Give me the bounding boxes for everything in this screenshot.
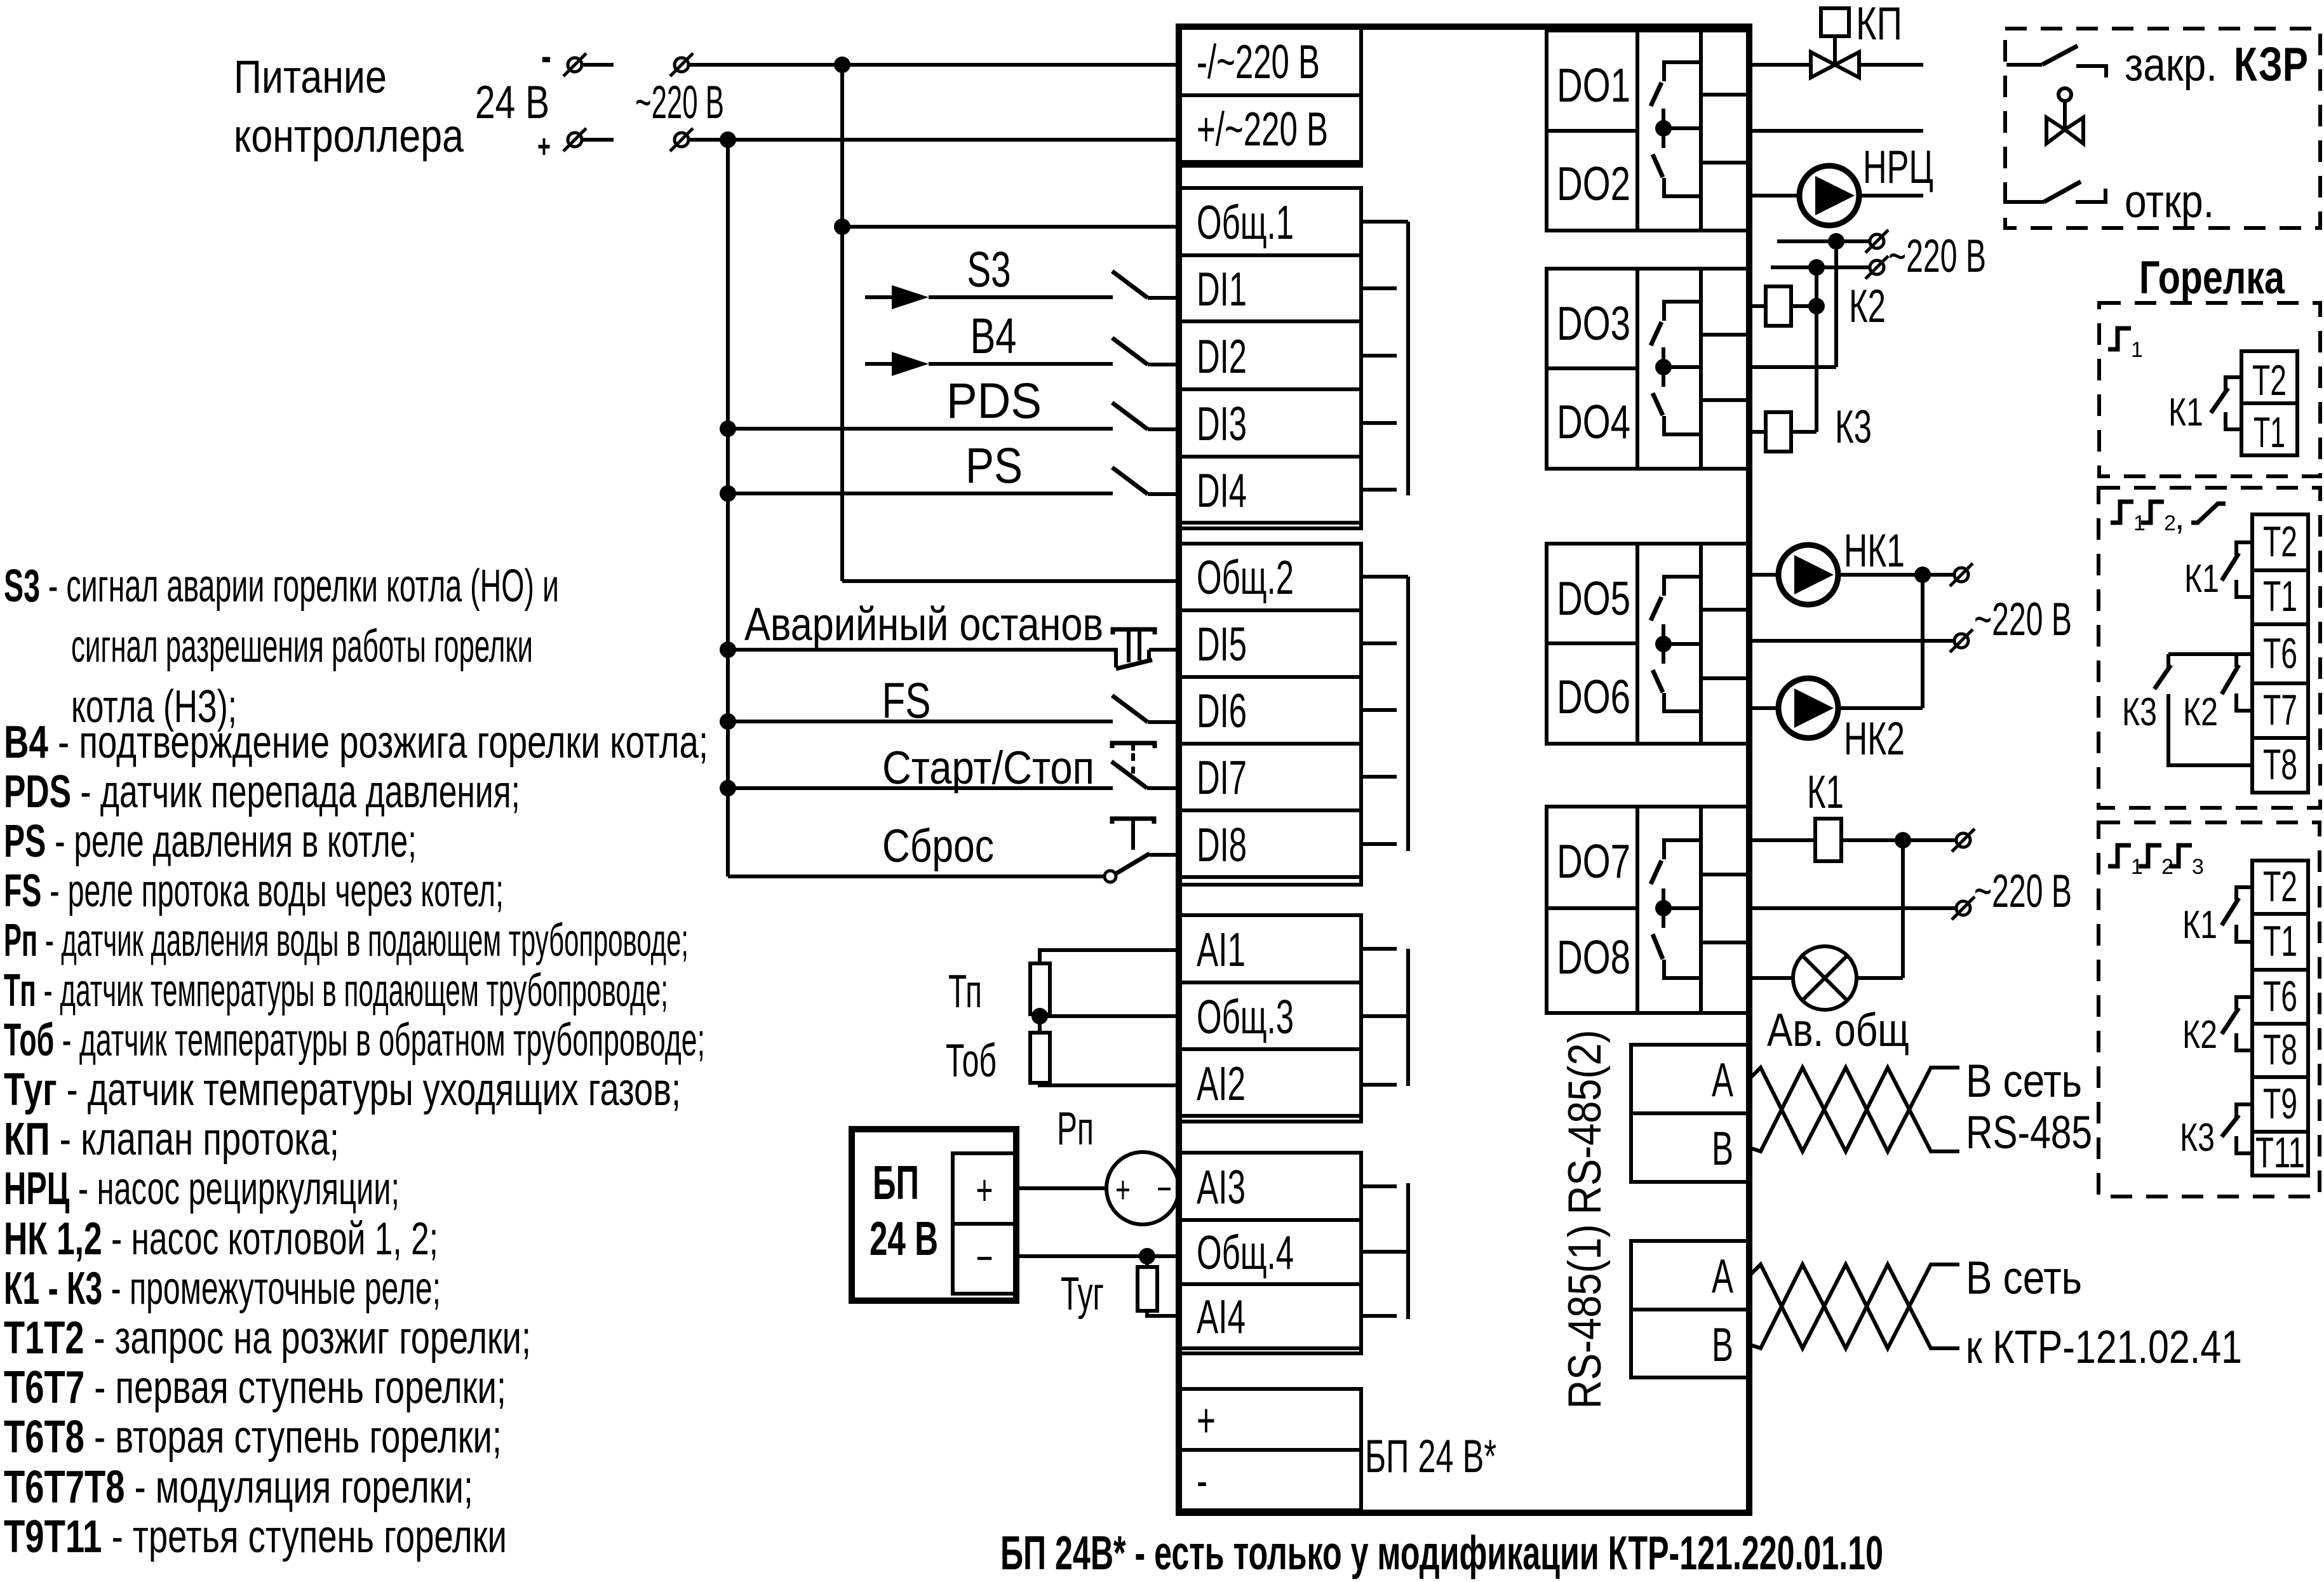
svg-text:Общ.2: Общ.2 xyxy=(1197,551,1294,604)
svg-text:Общ.4: Общ.4 xyxy=(1197,1226,1294,1279)
svg-text:DO1: DO1 xyxy=(1557,58,1630,112)
svg-text:~220 В: ~220 В xyxy=(1974,594,2072,645)
wire lamp to vertical xyxy=(1857,976,1903,980)
wire КП onward xyxy=(1859,63,1923,67)
wire DO1 to КП xyxy=(1749,63,1811,67)
Горелка box 1 (dashed) xyxy=(2099,303,2320,476)
svg-text:S3: S3 xyxy=(967,241,1011,297)
svg-text:AI3: AI3 xyxy=(1197,1160,1246,1214)
svg-text:T11: T11 xyxy=(2255,1129,2305,1177)
svg-text:+: + xyxy=(537,128,551,165)
terminal 24V plus xyxy=(563,128,586,151)
terminal group di1 xyxy=(1180,188,1361,528)
bracket bus group AI3/AI4 (Общ.4 common) xyxy=(1361,1250,1408,1254)
junction 220V-a / vertical xyxy=(1828,233,1844,250)
junction Туг top xyxy=(1139,1248,1155,1264)
wire DO4 common to vertical xyxy=(1749,365,1836,369)
svg-text:DO3: DO3 xyxy=(1557,297,1630,350)
wire DO1/DO2 common onward xyxy=(1749,129,1923,133)
step symbol Г1 xyxy=(2108,328,2131,349)
limit switch откр. xyxy=(2006,200,2044,204)
wire stub plus xyxy=(582,138,614,142)
svg-text:PDS - датчик перепада давлени: PDS - датчик перепада давления; xyxy=(4,767,520,817)
svg-text:AI2: AI2 xyxy=(1197,1057,1246,1110)
КЗР dashed box xyxy=(2005,29,2320,228)
junction 220V-b / vertical xyxy=(1808,259,1825,276)
svg-text:T9: T9 xyxy=(2263,1080,2297,1128)
svg-text:DI2: DI2 xyxy=(1197,330,1247,383)
contact К1 xyxy=(2226,377,2241,390)
svg-text:Т6Т7Т8 - модуляция горелки;: Т6Т7Т8 - модуляция горелки; xyxy=(4,1462,473,1513)
svg-text:DO4: DO4 xyxy=(1557,395,1630,448)
svg-text:В сеть: В сеть xyxy=(1966,1056,2082,1107)
svg-text:Туг - датчик температуры уходя: Туг - датчик температуры уходящих газов; xyxy=(4,1064,681,1115)
svg-text:~220 В: ~220 В xyxy=(635,77,724,128)
terminal 220V line1 xyxy=(670,53,693,76)
svg-text:Рп: Рп xyxy=(1057,1103,1094,1155)
svg-text:-: - xyxy=(541,31,551,81)
svg-text:RS-485: RS-485 xyxy=(1966,1107,2092,1158)
wire to Общ.1 xyxy=(842,225,1180,229)
wire DO8 to lamp xyxy=(1749,976,1793,980)
relay output block DO1/DO2 xyxy=(1547,30,1749,231)
svg-text:К1: К1 xyxy=(1807,767,1844,818)
wire stub minus xyxy=(582,63,614,67)
wire DO2 to НРЦ xyxy=(1749,194,1799,198)
switch S3 (DI1) xyxy=(929,295,1113,299)
valve symbol in КЗР xyxy=(2059,88,2071,101)
svg-text:К3: К3 xyxy=(1835,401,1872,453)
wire DO3 to К2 xyxy=(1749,304,1766,308)
terminal box T2/T1 (burner 1) xyxy=(2241,351,2297,455)
svg-text:КЗР: КЗР xyxy=(2234,37,2308,91)
svg-text:DO7: DO7 xyxy=(1557,835,1630,888)
wire between Тп and Тоб xyxy=(1038,1014,1042,1033)
contact К2 xyxy=(2236,654,2252,667)
step symbols Г1 Г2 Г3 xyxy=(2108,845,2131,866)
svg-text:К1: К1 xyxy=(2168,391,2203,434)
bracket bus group DI1-4 (Общ.1 common) xyxy=(1361,220,1408,224)
bracket bus group AI1/AI2 (Общ.3 common) xyxy=(1361,1014,1408,1018)
wire К1 to junction xyxy=(1841,838,1903,842)
svg-text:КП: КП xyxy=(1856,0,1902,50)
svg-text:−: − xyxy=(1157,1167,1172,1210)
svg-text:+: + xyxy=(1197,1393,1216,1447)
wire К3 to vertical xyxy=(1791,430,1817,434)
Горелка box 3 (dashed) xyxy=(2099,822,2320,1197)
svg-text:К1: К1 xyxy=(2182,903,2217,947)
svg-text:Т6Т7 - первая ступень горелки;: Т6Т7 - первая ступень горелки; xyxy=(4,1362,506,1413)
svg-text:,: , xyxy=(2175,497,2185,537)
resistor Тп xyxy=(1030,963,1050,1014)
svg-text:Горелка: Горелка xyxy=(2139,252,2285,304)
svg-text:DI8: DI8 xyxy=(1197,818,1247,871)
vertical bus A (Общ.1, Общ.2) xyxy=(840,65,844,581)
svg-text:сигнал разрешения работы горел: сигнал разрешения работы горелки xyxy=(71,621,533,672)
svg-text:КП - клапан протока;: КП - клапан протока; xyxy=(4,1114,339,1165)
svg-text:B4: B4 xyxy=(971,307,1017,364)
svg-text:+/~220 В: +/~220 В xyxy=(1197,102,1328,156)
switch PDS (DI3) xyxy=(728,427,1113,431)
svg-text:T7: T7 xyxy=(2263,686,2297,734)
RS-485(1) port box A/B xyxy=(1631,1241,1748,1378)
wire Тоб to AI2 xyxy=(1040,1083,1180,1085)
changeover contact of DO3/DO4 xyxy=(1664,302,1701,321)
svg-text:DO8: DO8 xyxy=(1557,930,1630,984)
wire 220V-b xyxy=(1771,265,1870,269)
svg-text:БП: БП xyxy=(873,1156,919,1209)
wire DO7/8 common to 220V terminal b xyxy=(1749,906,1956,910)
svg-text:Туг: Туг xyxy=(1061,1268,1104,1320)
wire НК2 to vertical xyxy=(1838,706,1923,710)
svg-text:FS - реле протока воды через к: FS - реле протока воды через котел; xyxy=(4,866,504,916)
switch PS (DI4) xyxy=(728,492,1113,495)
svg-text:T8: T8 xyxy=(2263,1026,2297,1074)
svg-text:Общ.3: Общ.3 xyxy=(1197,990,1294,1043)
twisted pair RS-485(2) xyxy=(1749,1068,1959,1151)
wire Тп to AI1 xyxy=(1040,950,1180,963)
controller main block outline xyxy=(1179,27,1749,1513)
svg-text:RS-485(1): RS-485(1) xyxy=(1559,1224,1611,1409)
wire to 220V terminal a xyxy=(1923,573,1954,577)
wire БП- to Общ.4 xyxy=(1016,1254,1180,1258)
svg-text:НК2: НК2 xyxy=(1844,713,1905,765)
switch B4 (DI2) xyxy=(929,362,1113,366)
svg-text:-/~220 В: -/~220 В xyxy=(1197,35,1320,88)
svg-text:Ав. общ: Ав. общ xyxy=(1767,1005,1909,1056)
changeover contact of DO5/DO6 xyxy=(1664,577,1701,596)
contact К3 (burner 2) xyxy=(2168,652,2236,656)
svg-text:БП 24 В*: БП 24 В* xyxy=(1365,1431,1496,1482)
svg-text:НРЦ: НРЦ xyxy=(1863,142,1933,193)
contact К1 xyxy=(2236,542,2252,555)
RS-485(2) port box A/B xyxy=(1631,1045,1748,1182)
svg-text:B: B xyxy=(1712,1318,1733,1371)
svg-text:RS-485(2): RS-485(2) xyxy=(1559,1030,1611,1215)
svg-text:В сеть: В сеть xyxy=(1966,1252,2082,1304)
svg-text:24 В: 24 В xyxy=(475,77,549,128)
resistor Туг xyxy=(1145,1256,1149,1267)
contact К1 xyxy=(2236,887,2252,900)
svg-text:К2: К2 xyxy=(2182,1013,2217,1057)
svg-text:К2: К2 xyxy=(2183,690,2218,734)
contact К2 xyxy=(2236,997,2252,1010)
svg-text:Т1Т2 - запрос на розжиг горелк: Т1Т2 - запрос на розжиг горелки; xyxy=(4,1313,531,1364)
svg-text:FS: FS xyxy=(882,672,931,728)
svg-text:A: A xyxy=(1712,1053,1733,1106)
svg-text:T2: T2 xyxy=(2252,356,2287,405)
svg-text:T1: T1 xyxy=(2263,917,2297,965)
svg-text:T2: T2 xyxy=(2263,518,2297,566)
limit switch закр. xyxy=(2006,63,2042,67)
wire DO7 to К1 xyxy=(1749,838,1815,842)
svg-text:T8: T8 xyxy=(2263,741,2297,789)
svg-text:Тоб - датчик температуры в обр: Тоб - датчик температуры в обратном труб… xyxy=(4,1015,705,1066)
svg-text:+: + xyxy=(1115,1169,1131,1211)
wire DO4 to К3 xyxy=(1749,430,1766,434)
wire 220V line1 to -/~220В box xyxy=(689,63,1180,67)
svg-text:DI3: DI3 xyxy=(1197,397,1247,450)
svg-text:PDS: PDS xyxy=(946,372,1042,429)
svg-text:1: 1 xyxy=(2131,338,2143,362)
vertical НК1/НК2 join xyxy=(1921,575,1924,708)
wire to 220V terminal a xyxy=(1903,838,1956,842)
vertical К1 to lamp xyxy=(1901,840,1905,978)
svg-text:DO6: DO6 xyxy=(1557,670,1630,723)
svg-text:К1: К1 xyxy=(2184,557,2219,601)
switch Аварийный останов (DI5, NC mushroom button) xyxy=(728,648,1116,652)
terminal 220V line2 xyxy=(670,128,693,151)
svg-text:закр.: закр. xyxy=(2125,39,2217,91)
relay output block DO5/DO6 xyxy=(1547,544,1749,744)
twisted pair RS-485(1) xyxy=(1749,1264,1959,1348)
terminal group ai1 xyxy=(1180,915,1361,1122)
wire Туг to AI4 xyxy=(1147,1311,1180,1316)
bracket bus group DI5-8 (Общ.2 common) xyxy=(1361,575,1408,579)
svg-text:DI5: DI5 xyxy=(1197,617,1247,671)
wire 220V-a xyxy=(1777,239,1870,243)
svg-text:B4 - подтверждение розжига гор: B4 - подтверждение розжига горелки котла… xyxy=(4,717,708,768)
svg-text:DI4: DI4 xyxy=(1197,464,1247,517)
svg-text:T2: T2 xyxy=(2263,862,2297,911)
switch Сброс (DI8, pushbutton NO) xyxy=(728,875,1104,878)
svg-text:24 В: 24 В xyxy=(870,1212,938,1265)
changeover contact of DO7/DO8 xyxy=(1664,840,1701,859)
terminal group power xyxy=(1180,27,1361,166)
svg-text:Т6Т8 - вторая ступень горелки;: Т6Т8 - вторая ступень горелки; xyxy=(4,1412,502,1463)
terminal group di2 xyxy=(1180,544,1361,885)
resistor Тоб xyxy=(1030,1033,1050,1083)
svg-text:PS: PS xyxy=(965,437,1023,493)
wire БП+ to Рп xyxy=(1016,1186,1106,1190)
svg-text:откр.: откр. xyxy=(2125,176,2214,227)
svg-text:T6: T6 xyxy=(2263,629,2297,678)
terminal group ai2 xyxy=(1180,1153,1361,1353)
junction bus A / Общ.1 wire xyxy=(834,218,850,235)
sensor Рп (pressure transmitter) xyxy=(1106,1152,1179,1224)
svg-text:Т9Т11 - третья ступень горелки: Т9Т11 - третья ступень горелки xyxy=(4,1512,507,1562)
svg-text:К3: К3 xyxy=(2122,690,2157,734)
svg-text:Старт/Стоп: Старт/Стоп xyxy=(882,742,1094,794)
svg-text:Аварийный останов: Аварийный останов xyxy=(744,599,1103,650)
terminal group pm xyxy=(1180,1389,1361,1510)
svg-text:К3: К3 xyxy=(2180,1116,2215,1160)
wire DO5/6 common to 220V terminal b xyxy=(1749,639,1954,643)
svg-text:T1: T1 xyxy=(2263,572,2297,620)
wire К2 to vertical xyxy=(1791,304,1817,308)
wire НК1 to junction xyxy=(1838,573,1923,577)
Горелка box 2 (dashed) xyxy=(2099,488,2320,808)
svg-text:Общ.1: Общ.1 xyxy=(1197,196,1294,249)
relay output block DO3/DO4 xyxy=(1547,269,1749,469)
vertical 220V-a to DO4 common xyxy=(1834,241,1838,367)
svg-text:Рп - датчик давления воды в по: Рп - датчик давления воды в подающем тру… xyxy=(4,915,688,966)
svg-text:Тоб: Тоб xyxy=(946,1035,997,1087)
wire to Общ.2 xyxy=(842,579,1180,583)
svg-text:Питание: Питание xyxy=(234,51,387,103)
svg-text:К1 - К3 - промежуточные реле;: К1 - К3 - промежуточные реле; xyxy=(4,1263,441,1314)
wire to Общ.3 xyxy=(1040,1014,1180,1018)
svg-text:к КТР-121.02.41: к КТР-121.02.41 xyxy=(1966,1322,2242,1373)
svg-text:PS - реле давления в котле;: PS - реле давления в котле; xyxy=(4,816,417,867)
svg-text:T6: T6 xyxy=(2263,972,2297,1021)
svg-text:DO5: DO5 xyxy=(1557,572,1630,625)
svg-text:Тп - датчик температуры в пода: Тп - датчик температуры в подающем трубо… xyxy=(4,965,668,1016)
svg-text:DO2: DO2 xyxy=(1557,157,1630,210)
svg-text:AI4: AI4 xyxy=(1197,1290,1246,1343)
svg-text:3: 3 xyxy=(2192,855,2204,879)
svg-text:-: - xyxy=(1197,1454,1207,1507)
junction line2 / bus B xyxy=(720,131,736,148)
wire DO6 to НК2 xyxy=(1749,706,1778,710)
wire НРЦ onward xyxy=(1859,194,1923,198)
relay output block DO7/DO8 xyxy=(1547,807,1749,1013)
contact К3 xyxy=(2236,1104,2252,1117)
wire DO5 to НК1 xyxy=(1749,573,1778,577)
power supply БП 24 В box xyxy=(852,1129,1016,1301)
terminal 24V minus xyxy=(563,53,586,76)
svg-text:B: B xyxy=(1712,1122,1733,1175)
junction line1 / bus A xyxy=(834,57,850,73)
svg-text:−: − xyxy=(976,1234,993,1282)
wire 220V line2 to +/~220В box xyxy=(689,138,1180,142)
svg-text:контроллера: контроллера xyxy=(234,111,464,162)
vertical bus B (DI3..DI8) xyxy=(726,140,730,876)
changeover contact of DO1/DO2 xyxy=(1664,62,1701,81)
switch FS (DI6) xyxy=(728,720,1113,723)
terminal box T2/T1/T6/T8/T9/T11 (burner 3) xyxy=(2252,861,2308,1176)
switch Старт/Стоп (DI7, latching pushbutton) xyxy=(728,786,1113,790)
svg-text:~220 В: ~220 В xyxy=(1888,231,1986,282)
terminal box T2/T1/T6/T7/T8 (burner 2) xyxy=(2252,514,2308,793)
svg-text:DI1: DI1 xyxy=(1197,262,1247,316)
svg-text:Тп: Тп xyxy=(948,966,982,1017)
svg-text:A: A xyxy=(1712,1249,1733,1303)
svg-text:НК1: НК1 xyxy=(1844,525,1905,577)
svg-text:~220 В: ~220 В xyxy=(1974,866,2072,917)
step symbols Г1 Г2 , ramp xyxy=(2111,502,2133,523)
svg-text:AI1: AI1 xyxy=(1197,923,1246,976)
svg-text:+: + xyxy=(976,1166,993,1214)
svg-text:Сброс: Сброс xyxy=(882,821,994,872)
svg-text:S3 - сигнал аварии горелки кот: S3 - сигнал аварии горелки котла (НО) и xyxy=(4,561,559,612)
svg-text:DI7: DI7 xyxy=(1197,751,1247,804)
svg-text:DI6: DI6 xyxy=(1197,684,1247,737)
svg-text:НРЦ - насос рециркуляции;: НРЦ - насос рециркуляции; xyxy=(4,1163,400,1214)
vertical 220V-b to К2 and К3 xyxy=(1815,268,1818,432)
junction Тп/Тоб common xyxy=(1031,1008,1048,1024)
svg-text:T1: T1 xyxy=(2253,408,2285,457)
svg-text:К2: К2 xyxy=(1849,281,1886,332)
svg-text:НК 1,2 - насос котловой 1, 2;: НК 1,2 - насос котловой 1, 2; xyxy=(4,1214,438,1264)
svg-text:БП 24В* - есть только у модифи: БП 24В* - есть только у модификации КТР-… xyxy=(1000,1526,1883,1579)
